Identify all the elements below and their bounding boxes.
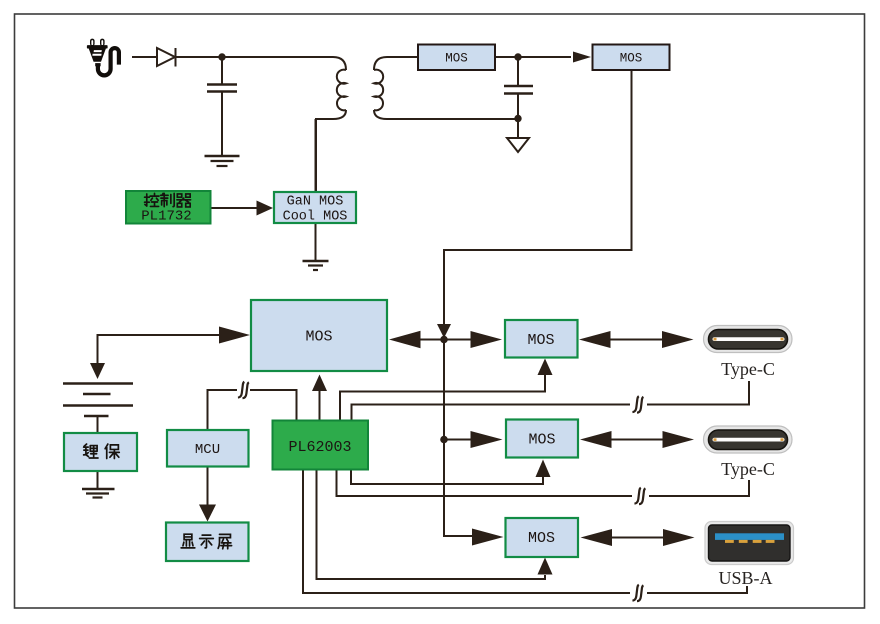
svg-text:MOS: MOS	[527, 332, 554, 349]
svg-text:PL1732: PL1732	[141, 209, 191, 225]
svg-text:MOS: MOS	[305, 329, 332, 346]
svg-text:Type-C: Type-C	[721, 359, 775, 379]
svg-text:MOS: MOS	[620, 52, 643, 66]
svg-text:PL62003: PL62003	[288, 439, 351, 456]
svg-text:MOS: MOS	[528, 530, 555, 547]
svg-text:MCU: MCU	[195, 442, 220, 458]
svg-text:Type-C: Type-C	[721, 459, 775, 479]
svg-text:MOS: MOS	[528, 432, 555, 449]
svg-text:USB-A: USB-A	[718, 568, 772, 588]
svg-text:Cool MOS: Cool MOS	[283, 210, 348, 225]
svg-text:MOS: MOS	[445, 52, 468, 66]
svg-text:GaN MOS: GaN MOS	[287, 195, 344, 210]
